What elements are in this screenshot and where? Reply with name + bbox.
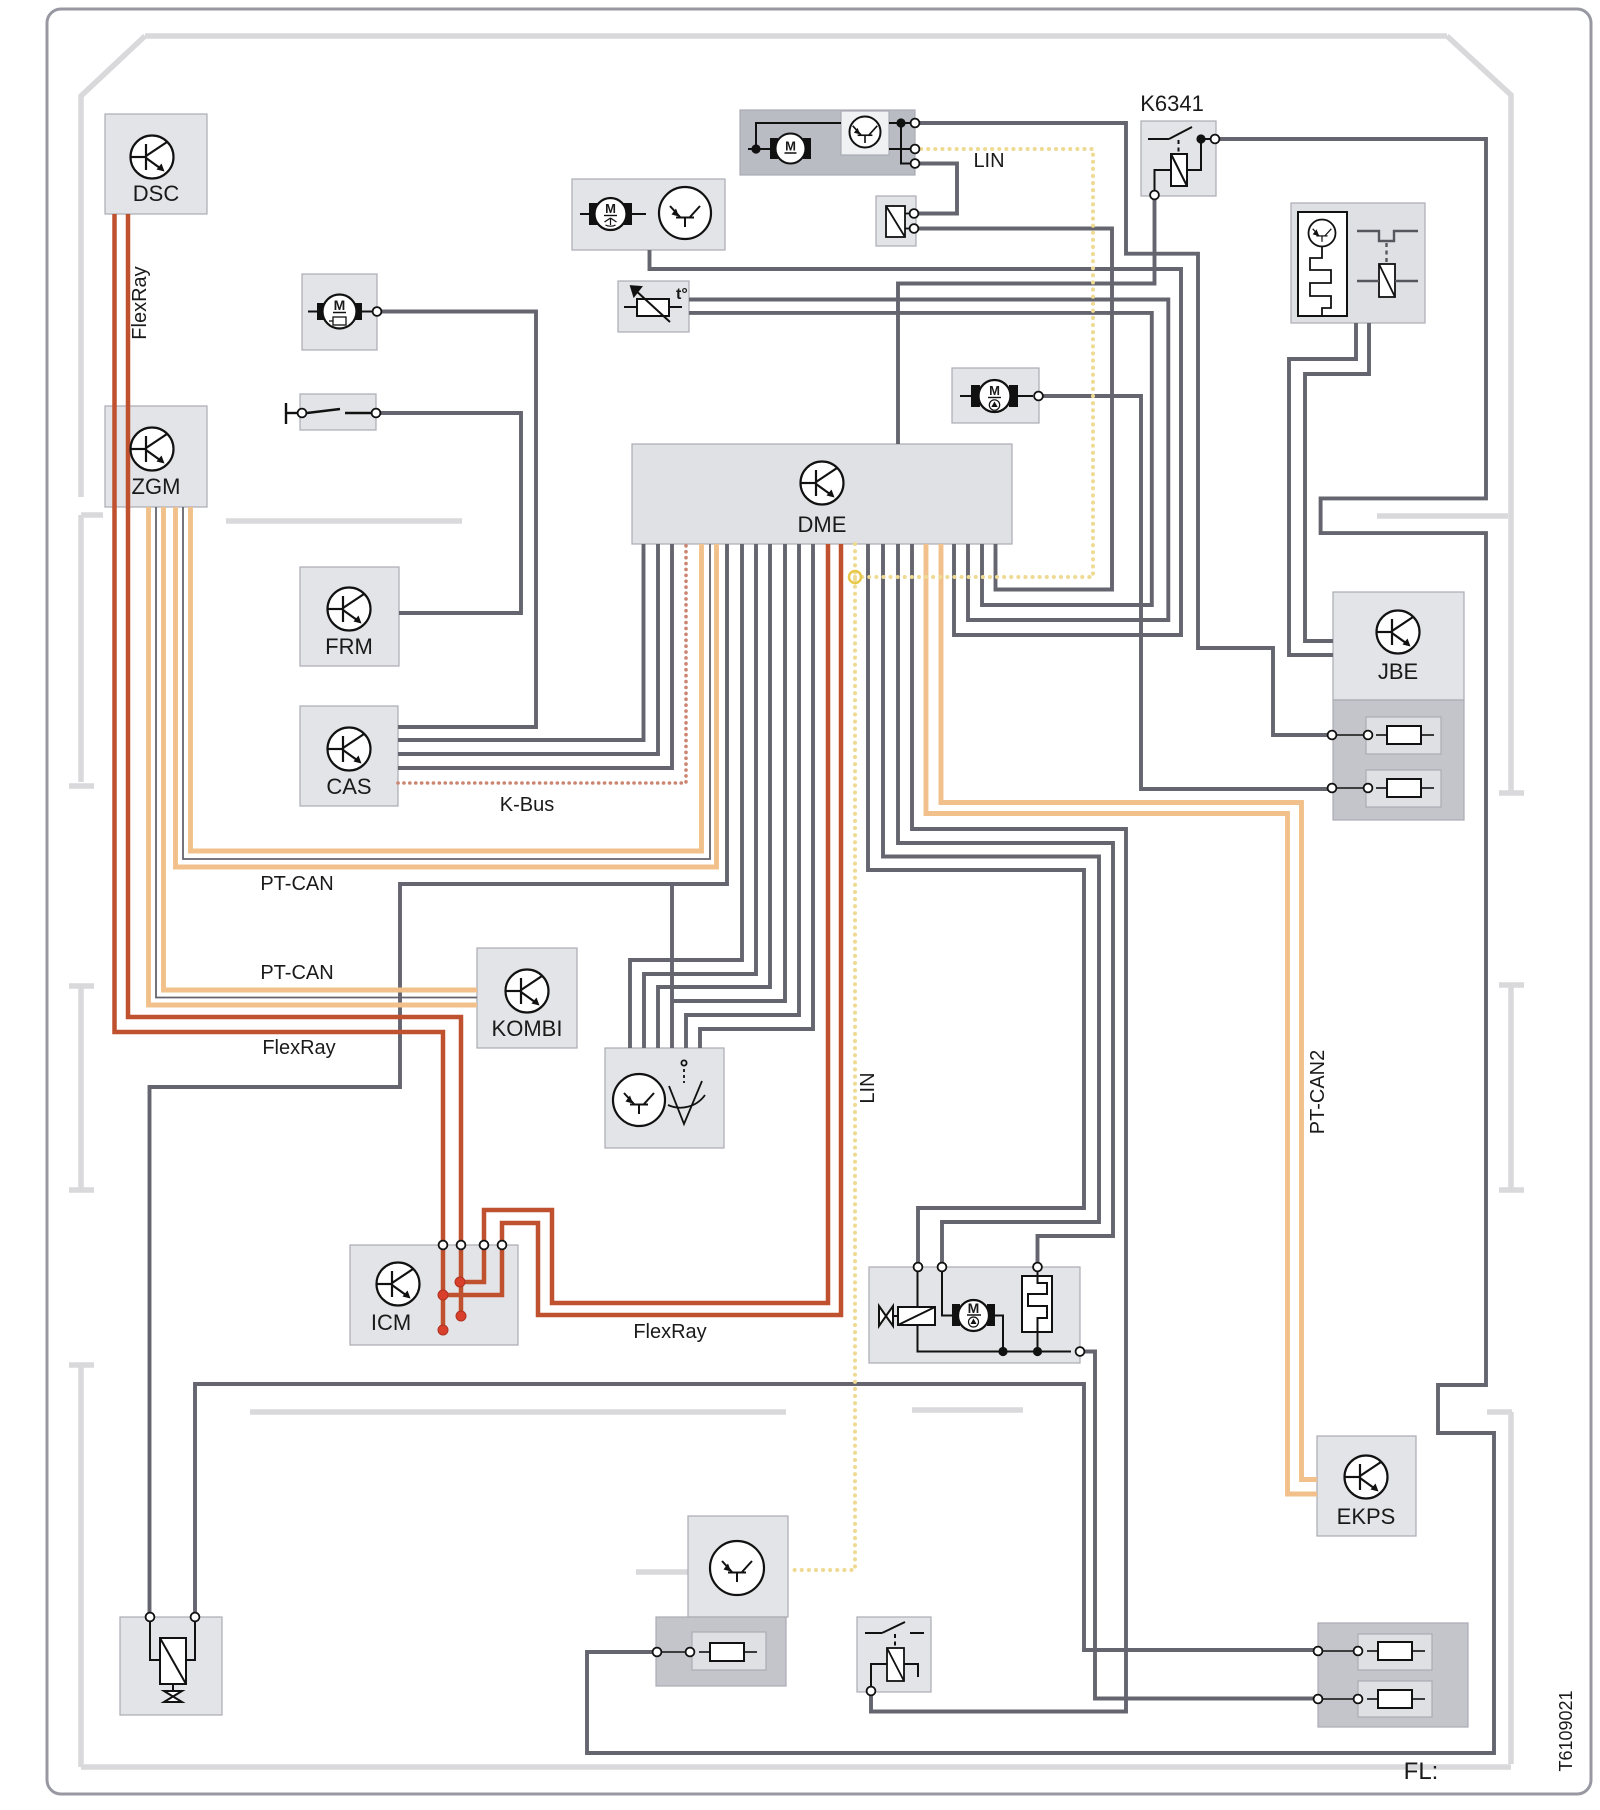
svg-text:JBE: JBE	[1378, 659, 1418, 684]
svg-text:CAS: CAS	[326, 774, 371, 799]
svg-text:K6341: K6341	[1140, 91, 1204, 116]
svg-text:FlexRay: FlexRay	[129, 266, 151, 339]
svg-text:M: M	[989, 383, 1000, 398]
svg-text:FlexRay: FlexRay	[633, 1321, 706, 1343]
svg-text:FL:: FL:	[1404, 1758, 1439, 1785]
svg-text:t°: t°	[676, 286, 688, 303]
svg-text:M: M	[334, 297, 346, 313]
svg-text:EKPS: EKPS	[1337, 1504, 1396, 1529]
svg-text:M: M	[968, 1300, 980, 1316]
svg-text:M: M	[785, 139, 796, 154]
svg-text:K-Bus: K-Bus	[500, 794, 554, 816]
svg-text:T6109021: T6109021	[1556, 1690, 1576, 1771]
svg-text:PT-CAN: PT-CAN	[260, 962, 333, 984]
svg-text:PT-CAN2: PT-CAN2	[1307, 1050, 1329, 1134]
svg-text:ICM: ICM	[371, 1310, 411, 1335]
svg-text:DME: DME	[798, 512, 847, 537]
svg-text:KOMBI: KOMBI	[492, 1016, 563, 1041]
svg-text:FlexRay: FlexRay	[262, 1037, 335, 1059]
svg-text:LIN: LIN	[973, 150, 1004, 172]
svg-text:M: M	[605, 201, 616, 216]
svg-text:ZGM: ZGM	[132, 474, 181, 499]
svg-text:FRM: FRM	[325, 634, 373, 659]
svg-text:LIN: LIN	[857, 1072, 879, 1103]
svg-text:PT-CAN: PT-CAN	[260, 873, 333, 895]
svg-text:DSC: DSC	[133, 181, 180, 206]
